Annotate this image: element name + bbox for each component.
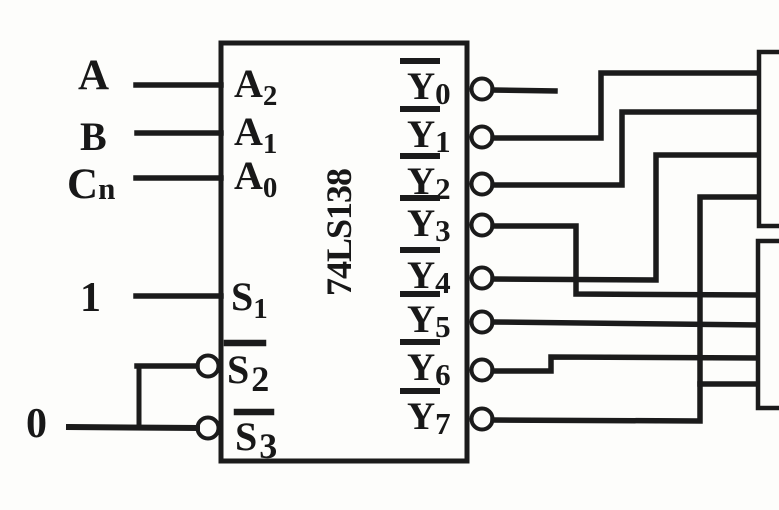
IC U1 74LS138 decoder body <box>221 43 467 461</box>
pin S2 overbar <box>227 340 263 347</box>
pin Y2 overbar <box>403 153 437 159</box>
wire vertical from 0 net up to S2 <box>137 366 142 427</box>
wire 0 to S3 bubble <box>69 427 197 428</box>
pin S2 bubble <box>198 356 219 377</box>
svg-text:Y7: Y7 <box>407 395 451 441</box>
wire Y2 to gate 1 <box>493 112 761 185</box>
wire B to A1 <box>137 130 221 136</box>
pin Y1 overbar <box>403 106 437 112</box>
svg-text:Y1: Y1 <box>407 113 451 159</box>
wire 1 to S1 <box>136 293 221 299</box>
pin Y2 bubble <box>472 174 493 195</box>
svg-text:A2: A2 <box>234 61 277 112</box>
pin Y3 overbar <box>403 195 437 201</box>
wire Cn to A0 <box>136 175 221 181</box>
svg-text:Y6: Y6 <box>407 346 451 392</box>
svg-text:1: 1 <box>80 275 101 321</box>
wire Y7 to gate 1 <box>493 197 761 421</box>
svg-text:0: 0 <box>26 401 47 447</box>
svg-text:S2: S2 <box>227 347 269 399</box>
pin Y6 overbar <box>403 339 437 345</box>
wire Y4 to gate 1 <box>493 155 761 280</box>
svg-text:A0: A0 <box>234 153 277 204</box>
svg-text:Y3: Y3 <box>407 202 451 248</box>
svg-text:A: A <box>78 52 109 99</box>
wire Y6 to gate 2 <box>493 357 758 371</box>
pin Y0 bubble <box>472 79 493 100</box>
pin Y0 overbar <box>403 58 437 64</box>
pin Y5 overbar <box>403 291 437 297</box>
svg-text:Y5: Y5 <box>407 298 451 344</box>
wire to S2 bubble <box>137 363 197 369</box>
pin Y4 bubble <box>472 268 493 289</box>
wire Y7 branch to gate 2 <box>700 381 758 387</box>
pin Y4 overbar <box>403 247 437 253</box>
wire Y0 stub <box>493 90 555 91</box>
pin Y7 overbar <box>403 388 437 394</box>
svg-text:S3: S3 <box>235 414 277 466</box>
pin Y5 bubble <box>472 312 493 333</box>
svg-text:Cn: Cn <box>67 161 115 208</box>
wire Y3 to gate 2 <box>493 226 758 295</box>
wire Y1 to gate 1 <box>493 73 761 138</box>
pin S3 bubble <box>198 418 219 439</box>
pin Y6 bubble <box>472 360 493 381</box>
svg-text:74LS138: 74LS138 <box>319 168 359 296</box>
pin Y3 bubble <box>472 215 493 236</box>
gate U2 NAND gate 1 body <box>759 52 779 226</box>
pin Y7 bubble <box>472 409 493 430</box>
svg-text:B: B <box>80 114 107 159</box>
svg-text:S1: S1 <box>231 274 268 325</box>
wire A to A2 <box>136 82 221 88</box>
wire Y5 to gate 2 <box>493 322 758 325</box>
pin S3 overbar <box>237 409 271 416</box>
gate U3 NAND gate 2 body <box>758 241 779 408</box>
svg-text:Y0: Y0 <box>407 65 451 111</box>
pin Y1 bubble <box>472 127 493 148</box>
